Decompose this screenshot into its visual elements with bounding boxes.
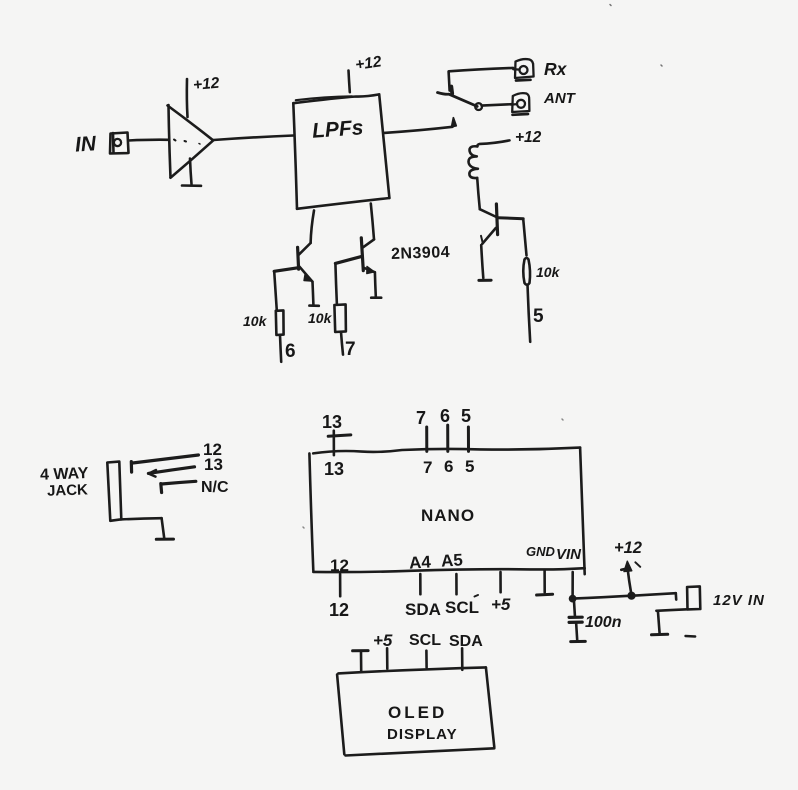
svg-text:5: 5: [465, 457, 474, 476]
svg-text:Rx: Rx: [544, 59, 568, 79]
svg-text:LPFs: LPFs: [311, 116, 364, 143]
svg-text:N/C: N/C: [201, 479, 229, 496]
svg-text:A5: A5: [441, 550, 464, 570]
svg-text:100n: 100n: [585, 614, 622, 631]
svg-text:12V IN: 12V IN: [713, 592, 765, 609]
svg-text:6: 6: [440, 406, 450, 426]
svg-text:6: 6: [285, 341, 296, 362]
svg-text:+5: +5: [373, 631, 393, 650]
svg-text:NANO: NANO: [421, 506, 475, 525]
svg-text:+12: +12: [192, 75, 220, 94]
svg-text:10k: 10k: [536, 264, 561, 280]
svg-text:13: 13: [204, 455, 223, 474]
svg-text:5: 5: [461, 406, 471, 426]
svg-text:DISPLAY: DISPLAY: [387, 726, 458, 743]
svg-text:7: 7: [416, 408, 426, 428]
svg-text:GND: GND: [526, 544, 556, 559]
svg-text:ANT: ANT: [543, 90, 577, 107]
svg-text:12: 12: [330, 556, 349, 575]
svg-text:IN: IN: [74, 132, 97, 156]
svg-text:10k: 10k: [308, 310, 333, 326]
svg-text:SCL: SCL: [445, 598, 479, 617]
svg-text:10k: 10k: [243, 313, 268, 329]
svg-text:OLED: OLED: [388, 703, 447, 722]
svg-text:7: 7: [345, 339, 356, 360]
svg-text:+5: +5: [491, 595, 511, 614]
svg-text:13: 13: [322, 412, 342, 432]
svg-text:VIN: VIN: [556, 546, 582, 563]
svg-text:6: 6: [444, 457, 453, 476]
svg-text:+12: +12: [515, 129, 542, 146]
svg-text:2N3904: 2N3904: [391, 244, 451, 263]
svg-text:+12: +12: [614, 539, 642, 557]
svg-text:SDA: SDA: [405, 600, 441, 619]
svg-text:13: 13: [324, 459, 344, 479]
svg-text:JACK: JACK: [47, 481, 89, 499]
svg-text:A4: A4: [409, 552, 432, 572]
svg-text:12: 12: [329, 600, 349, 620]
svg-text:SCL: SCL: [409, 632, 441, 649]
svg-text:7: 7: [423, 458, 432, 477]
svg-text:5: 5: [533, 306, 544, 327]
svg-text:SDA: SDA: [449, 633, 483, 650]
